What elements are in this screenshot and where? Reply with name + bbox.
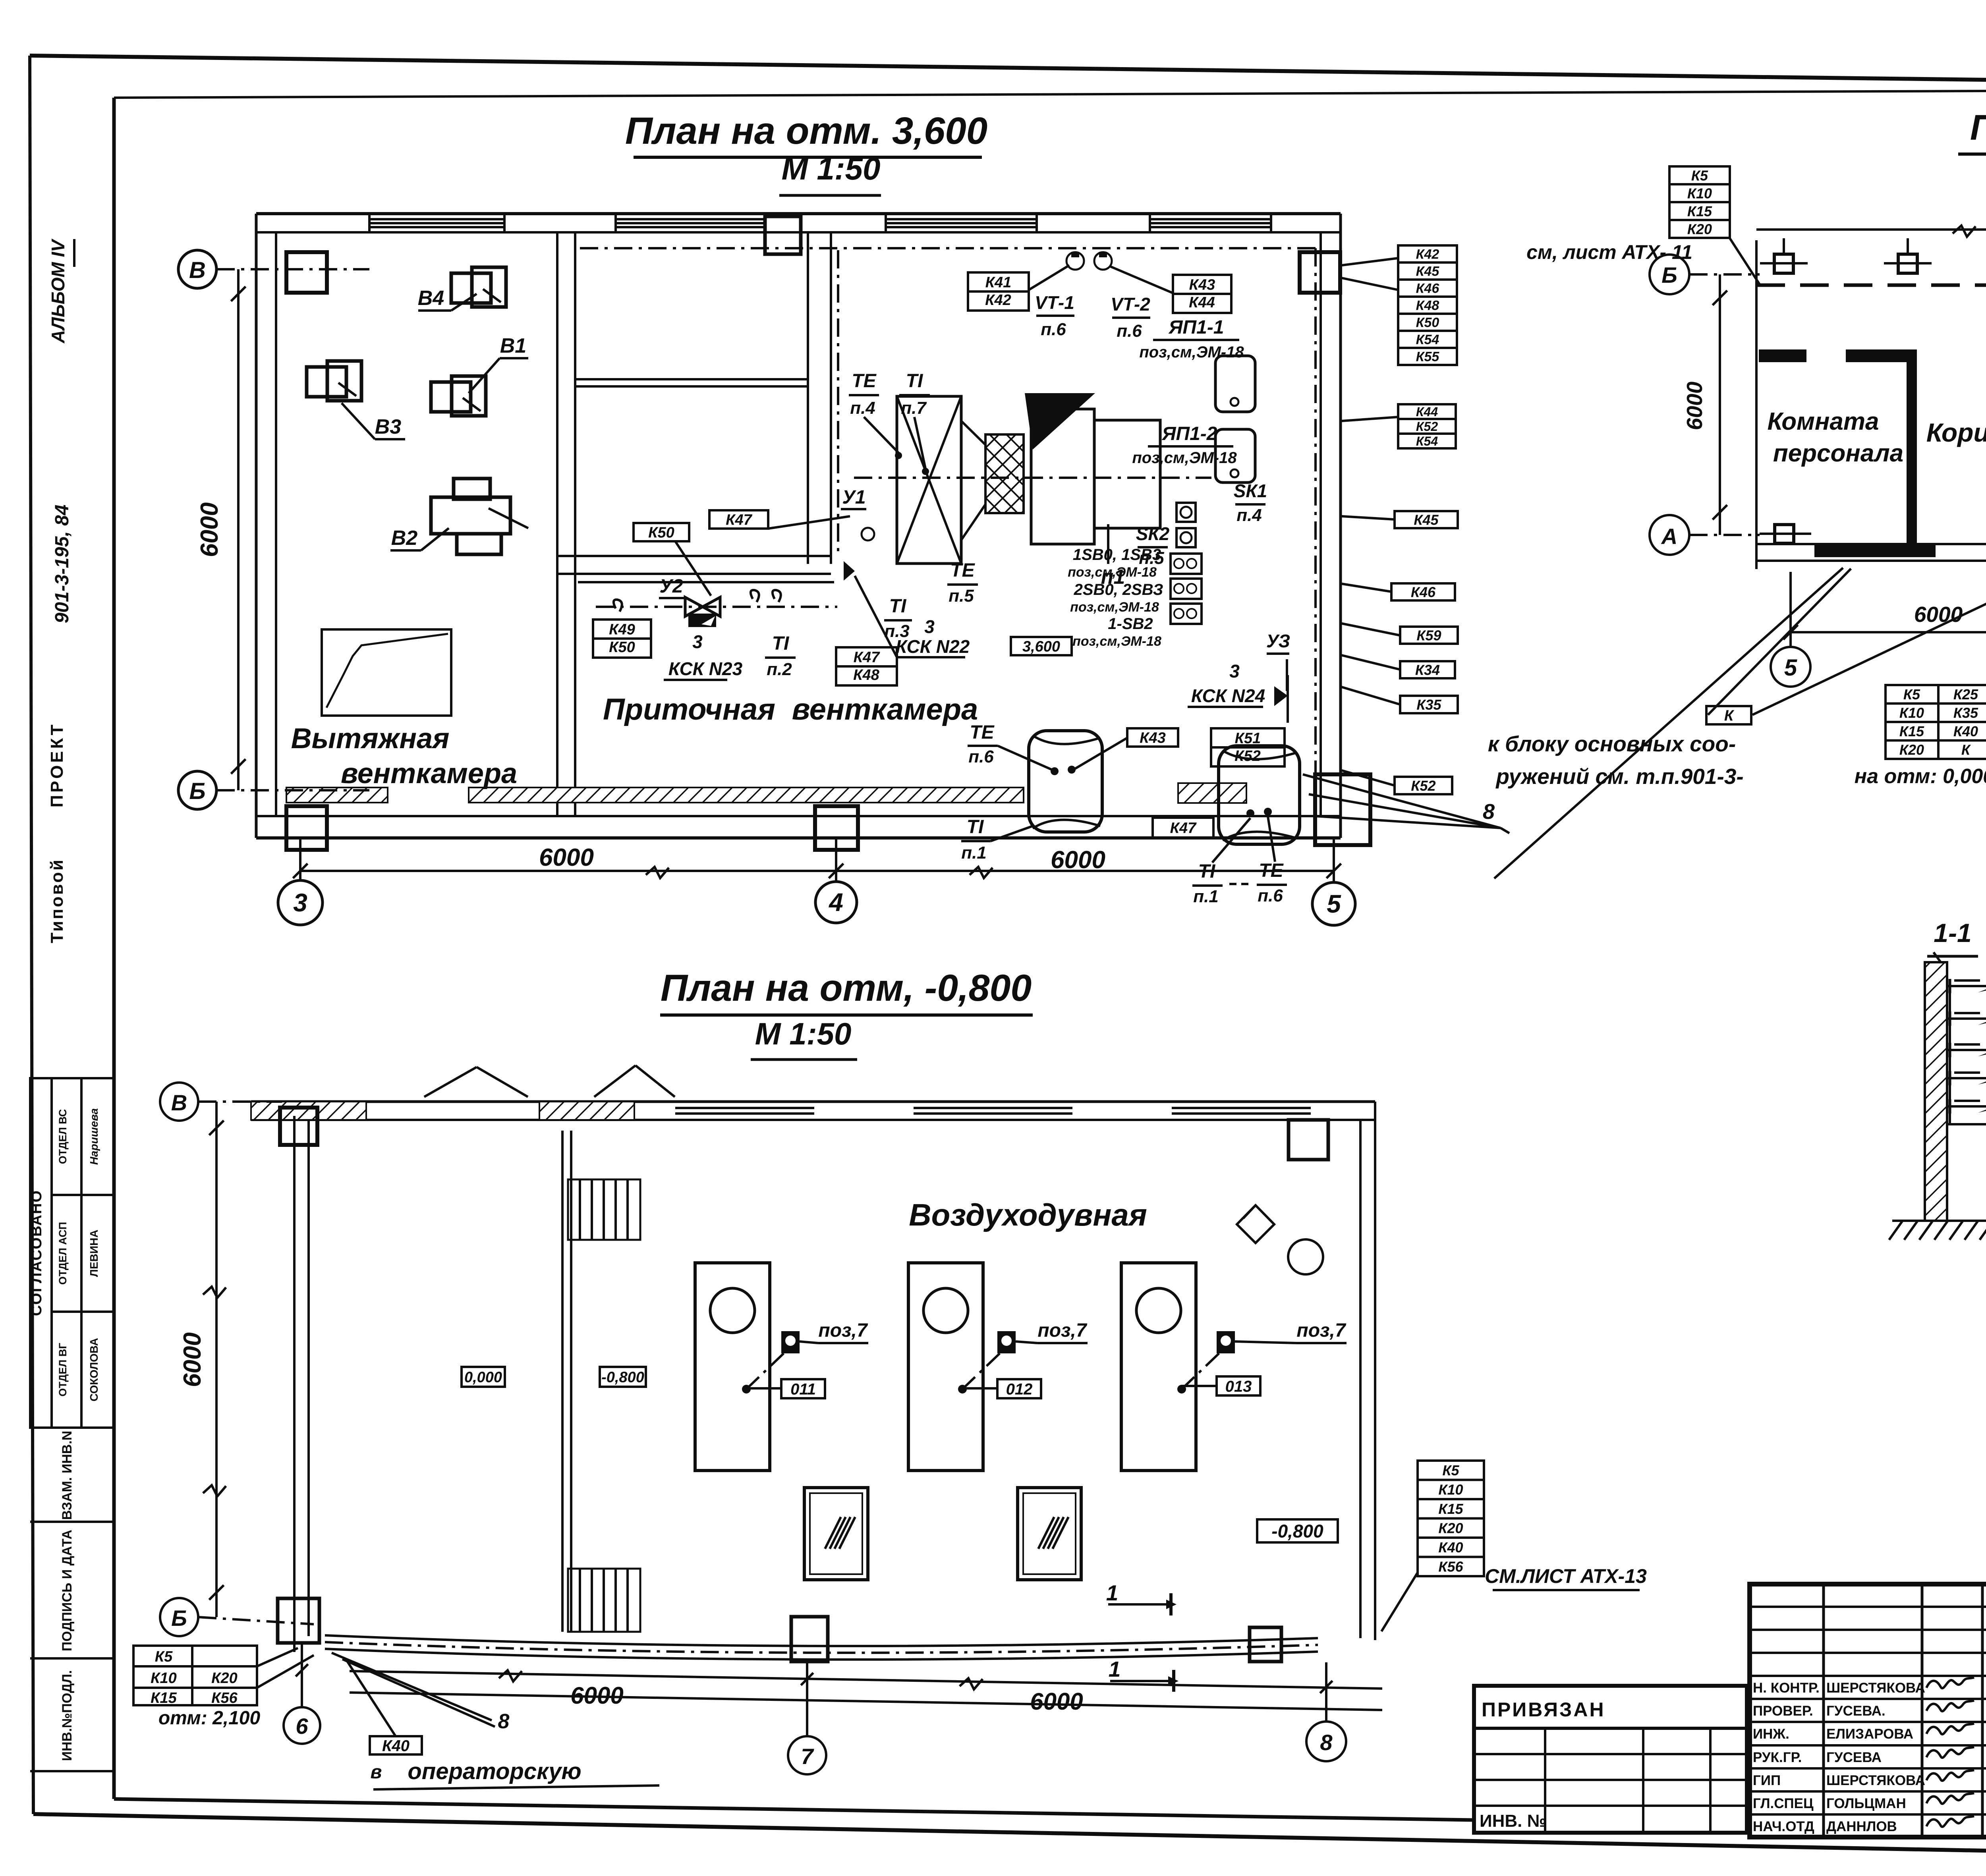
svg-text:7: 7 — [801, 1744, 814, 1769]
svg-text:8: 8 — [498, 1710, 510, 1733]
svg-text:План на отм. 3,600: План на отм. 3,600 — [625, 110, 987, 152]
svg-text:ОТДЕЛ ВС: ОТДЕЛ ВС — [57, 1109, 69, 1164]
svg-text:операторскую: операторскую — [408, 1758, 581, 1784]
svg-text:8: 8 — [1320, 1730, 1333, 1755]
svg-text:поз,см,ЭМ-18: поз,см,ЭМ-18 — [1068, 565, 1157, 580]
svg-text:К20: К20 — [211, 1670, 238, 1687]
svg-text:У2: У2 — [659, 576, 683, 597]
svg-text:К41: К41 — [985, 274, 1012, 291]
svg-text:К43: К43 — [1189, 277, 1215, 293]
svg-text:1SВ0, 1SВ3: 1SВ0, 1SВ3 — [1073, 546, 1161, 564]
svg-text:ТЕ: ТЕ — [1259, 860, 1284, 881]
svg-text:К10: К10 — [1899, 705, 1924, 721]
svg-text:6000: 6000 — [179, 1332, 206, 1387]
svg-text:6000: 6000 — [1914, 602, 1963, 627]
svg-text:В1: В1 — [500, 334, 526, 357]
svg-text:поз,7: поз,7 — [1296, 1320, 1346, 1341]
svg-text:Б: Б — [171, 1606, 187, 1631]
svg-text:В3: В3 — [375, 415, 402, 438]
svg-text:АЛЬБОМ IV: АЛЬБОМ IV — [48, 239, 68, 344]
svg-text:ТI: ТI — [889, 596, 907, 617]
svg-text:п.7: п.7 — [901, 398, 927, 418]
svg-text:К56: К56 — [1438, 1559, 1463, 1575]
svg-text:п.6: п.6 — [968, 747, 994, 766]
svg-text:SК2: SК2 — [1136, 523, 1170, 544]
svg-text:SК1: SК1 — [1234, 481, 1267, 501]
svg-text:2SВ0, 2SВЗ: 2SВ0, 2SВЗ — [1074, 581, 1163, 598]
svg-text:РУК.ГР.: РУК.ГР. — [1753, 1750, 1802, 1765]
svg-text:1: 1 — [1109, 1657, 1121, 1681]
svg-text:К25: К25 — [1953, 686, 1978, 703]
svg-text:ОТДЕЛ ВГ: ОТДЕЛ ВГ — [57, 1343, 69, 1396]
svg-text:К34: К34 — [1415, 662, 1440, 678]
svg-text:У1: У1 — [842, 487, 865, 508]
svg-text:6000: 6000 — [1682, 381, 1707, 430]
svg-text:КСК N24: КСК N24 — [1191, 685, 1265, 706]
svg-text:Б: Б — [1661, 262, 1677, 288]
svg-text:К47: К47 — [854, 649, 880, 666]
svg-text:ТЕ: ТЕ — [970, 722, 995, 743]
svg-text:поз,см,ЭМ-18: поз,см,ЭМ-18 — [1139, 344, 1244, 361]
svg-text:К59: К59 — [1416, 627, 1441, 643]
svg-text:на отм: 0,000: на отм: 0,000 — [1855, 765, 1986, 788]
svg-text:К55: К55 — [1416, 349, 1440, 365]
svg-text:поз,см,ЭМ-18: поз,см,ЭМ-18 — [1132, 449, 1237, 467]
svg-text:К20: К20 — [1899, 742, 1924, 758]
svg-text:План на отм: 3,600: План на отм: 3,600 — [1970, 108, 1986, 148]
svg-text:п.1: п.1 — [961, 843, 987, 863]
svg-text:Приточная: Приточная — [603, 693, 775, 726]
svg-text:К5: К5 — [1442, 1462, 1459, 1478]
svg-text:1: 1 — [1106, 1581, 1119, 1605]
svg-text:К43: К43 — [1140, 730, 1166, 747]
svg-text:ТЕ: ТЕ — [950, 560, 975, 581]
svg-text:К40: К40 — [382, 1737, 410, 1754]
svg-text:VТ-1: VТ-1 — [1035, 292, 1074, 313]
svg-text:011: 011 — [790, 1380, 816, 1398]
svg-text:К54: К54 — [1416, 332, 1439, 347]
svg-text:Воздуходувная: Воздуходувная — [909, 1197, 1147, 1232]
svg-text:3,600: 3,600 — [1022, 639, 1060, 655]
svg-text:К54: К54 — [1416, 434, 1438, 448]
svg-text:ДАННЛОВ: ДАННЛОВ — [1826, 1819, 1897, 1834]
svg-text:поз,см,ЭМ-18: поз,см,ЭМ-18 — [1072, 634, 1161, 649]
svg-text:6000: 6000 — [570, 1682, 623, 1709]
svg-text:К20: К20 — [1687, 221, 1712, 237]
svg-text:-0,800: -0,800 — [1271, 1521, 1323, 1542]
svg-text:поз,7: поз,7 — [818, 1320, 868, 1341]
svg-text:К50: К50 — [609, 639, 635, 656]
svg-text:К46: К46 — [1411, 584, 1436, 600]
svg-text:ГИП: ГИП — [1753, 1773, 1781, 1788]
svg-text:п.4: п.4 — [1236, 506, 1262, 525]
svg-text:поз,см,ЭМ-18: поз,см,ЭМ-18 — [1070, 600, 1159, 615]
svg-text:К10: К10 — [151, 1670, 177, 1687]
svg-text:План на отм, -0,800: План на отм, -0,800 — [661, 967, 1032, 1009]
svg-text:ЯП1-1: ЯП1-1 — [1168, 317, 1224, 338]
svg-text:поз,7: поз,7 — [1037, 1320, 1087, 1341]
svg-text:ОТДЕЛ АСП: ОТДЕЛ АСП — [57, 1222, 69, 1285]
svg-text:Б: Б — [189, 778, 205, 804]
svg-text:ГУСЕВА.: ГУСЕВА. — [1826, 1703, 1886, 1719]
svg-text:НАЧ.ОТД: НАЧ.ОТД — [1753, 1819, 1814, 1834]
svg-text:К35: К35 — [1953, 705, 1978, 721]
svg-text:К15: К15 — [1687, 203, 1712, 219]
svg-text:013: 013 — [1225, 1378, 1252, 1395]
svg-text:ГОЛЬЦМАН: ГОЛЬЦМАН — [1826, 1796, 1906, 1811]
svg-text:6000: 6000 — [196, 502, 223, 557]
svg-text:3: 3 — [924, 616, 935, 637]
svg-text:К40: К40 — [1953, 723, 1978, 739]
svg-text:К15: К15 — [1899, 723, 1924, 739]
svg-text:К20: К20 — [1438, 1520, 1463, 1536]
svg-text:венткамера: венткамера — [341, 758, 517, 789]
svg-text:к блоку основных соо-: к блоку основных соо- — [1488, 731, 1736, 756]
svg-text:К42: К42 — [1416, 247, 1439, 262]
svg-text:ТI: ТI — [772, 633, 790, 654]
svg-text:6000: 6000 — [1030, 1688, 1083, 1715]
svg-text:ТI: ТI — [906, 371, 923, 392]
svg-text:В2: В2 — [391, 527, 418, 550]
svg-text:п.6: п.6 — [1041, 320, 1066, 339]
svg-text:К42: К42 — [985, 292, 1011, 309]
svg-text:К5: К5 — [1903, 686, 1920, 703]
svg-text:п.5: п.5 — [949, 586, 974, 606]
svg-text:Наришева: Наришева — [88, 1108, 100, 1165]
svg-text:К48: К48 — [853, 667, 879, 683]
svg-text:венткамера: венткамера — [792, 693, 978, 726]
svg-text:К44: К44 — [1416, 405, 1438, 419]
svg-text:К15: К15 — [151, 1690, 177, 1706]
svg-text:5: 5 — [1784, 655, 1797, 681]
svg-text:персонала: персонала — [1773, 440, 1903, 467]
svg-text:СОКОЛОВА: СОКОЛОВА — [88, 1338, 100, 1401]
svg-text:СМ.ЛИСТ АТХ-13: СМ.ЛИСТ АТХ-13 — [1485, 1565, 1647, 1587]
svg-text:6: 6 — [296, 1714, 308, 1739]
svg-text:К40: К40 — [1438, 1539, 1463, 1556]
svg-text:К50: К50 — [1416, 315, 1439, 330]
svg-text:К15: К15 — [1438, 1501, 1463, 1517]
svg-text:СОГЛАСОВАНО: СОГЛАСОВАНО — [28, 1190, 45, 1316]
svg-text:п.6: п.6 — [1117, 321, 1142, 341]
svg-text:К48: К48 — [1416, 298, 1439, 313]
svg-text:ПРИВЯЗАН: ПРИВЯЗАН — [1482, 1698, 1605, 1721]
svg-text:ШЕРСТЯКОВА: ШЕРСТЯКОВА — [1826, 1680, 1925, 1696]
svg-text:ИНВ.№ПОДЛ.: ИНВ.№ПОДЛ. — [60, 1670, 75, 1761]
svg-text:К49: К49 — [609, 621, 635, 638]
svg-text:п.6: п.6 — [1258, 886, 1283, 905]
svg-text:ПРОВЕР.: ПРОВЕР. — [1753, 1703, 1813, 1719]
svg-text:ШЕРСТЯКОВА: ШЕРСТЯКОВА — [1826, 1773, 1925, 1788]
svg-text:см, лист АТХ- 11: см, лист АТХ- 11 — [1526, 241, 1692, 263]
svg-text:Вытяжная: Вытяжная — [291, 723, 450, 755]
svg-text:К47: К47 — [1170, 820, 1197, 837]
svg-text:4: 4 — [828, 888, 843, 917]
svg-text:ТI: ТI — [967, 816, 984, 838]
svg-text:Коридор: Коридор — [1926, 418, 1986, 447]
svg-text:К52: К52 — [1411, 778, 1435, 794]
svg-text:3: 3 — [293, 888, 307, 917]
svg-text:М 1:50: М 1:50 — [755, 1016, 852, 1051]
svg-text:К45: К45 — [1414, 511, 1439, 528]
svg-text:К: К — [1961, 742, 1971, 758]
svg-text:К56: К56 — [211, 1690, 238, 1706]
svg-text:3: 3 — [1229, 661, 1240, 681]
svg-text:0,000: 0,000 — [464, 1369, 502, 1386]
svg-text:К52: К52 — [1416, 419, 1438, 434]
svg-text:ИНЖ.: ИНЖ. — [1753, 1726, 1789, 1742]
svg-text:ВЗАМ. ИНВ.N: ВЗАМ. ИНВ.N — [60, 1431, 75, 1520]
svg-text:В: В — [189, 257, 206, 283]
svg-text:в: в — [371, 1762, 382, 1783]
svg-text:901-3-195, 84: 901-3-195, 84 — [52, 505, 73, 623]
svg-text:ПРОЕКТ: ПРОЕКТ — [47, 722, 67, 808]
svg-text:6000: 6000 — [539, 844, 594, 871]
svg-text:А: А — [1661, 524, 1677, 549]
svg-text:ИНВ. №: ИНВ. № — [1480, 1811, 1547, 1831]
svg-text:К44: К44 — [1189, 294, 1215, 311]
svg-text:К35: К35 — [1416, 697, 1441, 713]
svg-text:8: 8 — [1483, 800, 1495, 824]
svg-text:Комната: Комната — [1767, 408, 1879, 435]
svg-text:КСК N23: КСК N23 — [668, 658, 743, 679]
svg-text:-0,800: -0,800 — [601, 1369, 644, 1386]
svg-text:ГУСЕВА: ГУСЕВА — [1826, 1750, 1882, 1765]
svg-text:1-1: 1-1 — [1934, 918, 1971, 948]
svg-text:К10: К10 — [1687, 185, 1712, 201]
svg-text:К46: К46 — [1416, 281, 1440, 296]
svg-text:VТ-2: VТ-2 — [1111, 294, 1150, 315]
svg-text:ТЕ: ТЕ — [852, 371, 877, 392]
svg-text:К45: К45 — [1416, 264, 1440, 279]
svg-text:К47: К47 — [726, 512, 752, 529]
svg-text:ЛЕВИНА: ЛЕВИНА — [88, 1229, 100, 1277]
svg-text:КСК N22: КСК N22 — [896, 636, 970, 657]
svg-text:ПОДПИСЬ И ДАТА: ПОДПИСЬ И ДАТА — [60, 1530, 75, 1651]
svg-text:отм: 2,100: отм: 2,100 — [158, 1708, 261, 1729]
svg-text:М 1:50: М 1:50 — [782, 151, 881, 186]
svg-text:п.1: п.1 — [1193, 887, 1219, 906]
svg-text:ГЛ.СПЕЦ: ГЛ.СПЕЦ — [1753, 1796, 1814, 1811]
svg-text:012: 012 — [1006, 1380, 1033, 1398]
svg-text:К5: К5 — [1691, 167, 1708, 183]
svg-text:К5: К5 — [155, 1648, 173, 1665]
svg-text:Н. КОНТР.: Н. КОНТР. — [1753, 1680, 1820, 1696]
svg-text:Типовой: Типовой — [47, 858, 67, 943]
svg-text:К: К — [1724, 708, 1735, 724]
svg-text:3: 3 — [692, 631, 703, 652]
svg-text:ЯП1-2: ЯП1-2 — [1161, 423, 1217, 444]
svg-text:п.2: п.2 — [767, 660, 792, 679]
svg-text:В4: В4 — [418, 287, 444, 310]
svg-text:п.4: п.4 — [850, 398, 875, 418]
svg-text:5: 5 — [1327, 890, 1341, 918]
svg-text:К50: К50 — [648, 525, 674, 541]
svg-text:ЕЛИЗАРОВА: ЕЛИЗАРОВА — [1826, 1726, 1913, 1742]
svg-text:ТI: ТI — [1198, 861, 1216, 882]
svg-text:УЗ: УЗ — [1266, 631, 1290, 651]
svg-text:6000: 6000 — [1051, 846, 1105, 874]
svg-text:1-SВ2: 1-SВ2 — [1108, 615, 1153, 633]
svg-text:К10: К10 — [1438, 1482, 1463, 1498]
svg-text:В: В — [171, 1090, 187, 1115]
